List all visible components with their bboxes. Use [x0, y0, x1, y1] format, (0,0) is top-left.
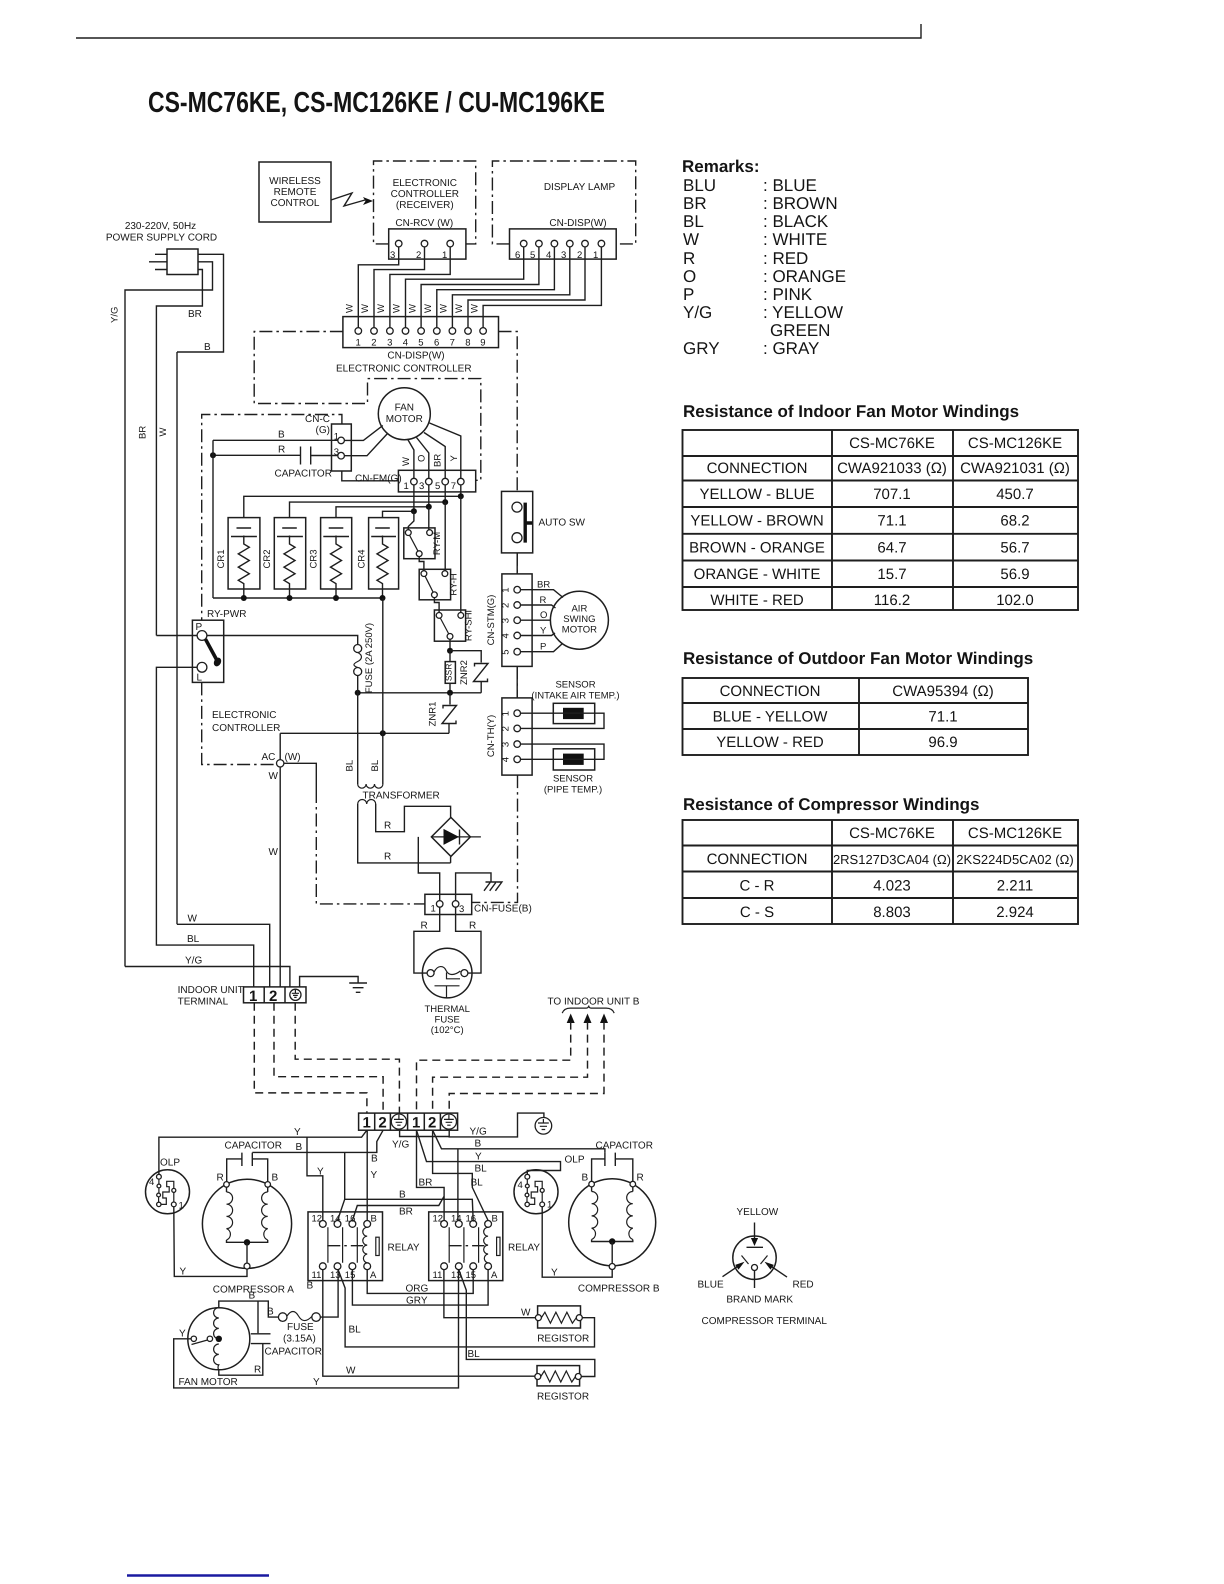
svg-text:: WHITE: : WHITE: [763, 230, 827, 249]
fan motor capacitor: [257, 1301, 259, 1333]
wire Y/G to outdoor earth: [449, 1113, 544, 1137]
wire ORG relay A pinA to relay B pin15: [367, 1270, 473, 1294]
svg-text:Y: Y: [371, 1170, 378, 1181]
svg-text:116.2: 116.2: [874, 592, 910, 609]
connector CN-RCV(W): [389, 229, 466, 259]
svg-text:7: 7: [450, 338, 455, 349]
svg-text:ZNR2: ZNR2: [459, 660, 470, 685]
W labels on 9 wires: [345, 304, 481, 313]
wire terminal ground to chassis earth: [300, 977, 359, 987]
svg-text:Y: Y: [294, 1127, 301, 1138]
svg-text:A: A: [370, 1270, 377, 1281]
connector CN-DISP(W) top: [510, 229, 617, 259]
svg-text:CAPACITOR: CAPACITOR: [265, 1347, 322, 1358]
wire BR from plug: [156, 270, 202, 636]
svg-text:W: W: [392, 304, 403, 313]
svg-text:2KS224D5CA02 (Ω): 2KS224D5CA02 (Ω): [956, 852, 1073, 867]
air swing motor: [550, 591, 608, 649]
wire CN-DISP pin3 to 9pin-7: [452, 247, 569, 328]
svg-text:6: 6: [434, 338, 439, 349]
diode bridge: [431, 817, 470, 856]
wire B from outdoor 2L to compressor A capacitor: [252, 1130, 383, 1152]
svg-text:16: 16: [466, 1214, 477, 1225]
svg-text:L: L: [197, 673, 203, 684]
svg-text:: GRAY: : GRAY: [763, 339, 819, 358]
svg-text:YELLOW: YELLOW: [737, 1207, 779, 1218]
svg-text:YELLOW - BROWN: YELLOW - BROWN: [690, 513, 823, 530]
OLP B: [514, 1170, 558, 1214]
svg-text:R: R: [540, 595, 547, 606]
terminal earth R: [441, 1114, 456, 1129]
wire CN-STM to CN-TH: [516, 666, 518, 698]
svg-text:B: B: [371, 1214, 377, 1225]
svg-text:YELLOW - RED: YELLOW - RED: [716, 734, 824, 751]
svg-text:BL: BL: [344, 760, 355, 772]
svg-text:BLUE: BLUE: [698, 1280, 724, 1291]
svg-text:3: 3: [501, 742, 512, 747]
svg-text:3: 3: [459, 904, 464, 915]
svg-text:71.1: 71.1: [928, 709, 957, 726]
svg-text:12: 12: [312, 1214, 323, 1225]
svg-text:102.0: 102.0: [996, 592, 1034, 609]
svg-text:CR3: CR3: [309, 549, 320, 568]
svg-text:MOTOR: MOTOR: [562, 625, 597, 636]
svg-text:R: R: [254, 1365, 261, 1376]
transformer secondary leads R: [358, 804, 451, 863]
svg-text:56.7: 56.7: [1000, 540, 1029, 557]
wire relay B pin14 feed: [457, 1149, 459, 1221]
svg-text:Y/G: Y/G: [470, 1127, 487, 1138]
svg-text:CS-MC126KE: CS-MC126KE: [968, 435, 1062, 452]
svg-text:2: 2: [501, 603, 512, 608]
bridge bottom lead: [450, 857, 452, 863]
svg-text:Y/G: Y/G: [185, 956, 202, 967]
pin 4 of CN-DISP: [551, 240, 558, 247]
svg-text:B: B: [278, 430, 285, 441]
wire W bus CN-FM pin1 to CR4: [383, 485, 414, 518]
svg-text:P: P: [540, 642, 546, 653]
svg-text:MOTOR: MOTOR: [386, 414, 423, 425]
CN-FUSE pin3 to frame ground 777: [456, 873, 491, 901]
svg-text:O: O: [417, 455, 428, 462]
thermal fuse: [422, 948, 472, 998]
svg-text:TRANSFORMER: TRANSFORMER: [363, 791, 440, 802]
svg-text:OLP: OLP: [160, 1158, 180, 1169]
svg-text:5: 5: [501, 649, 512, 654]
pin 2 of CN-DISP: [582, 240, 589, 247]
svg-text:INDOOR UNIT: INDOOR UNIT: [178, 985, 244, 996]
sensor pipe temp: [553, 749, 594, 770]
svg-text:Y: Y: [449, 455, 460, 462]
wire Y OLP A to compressor A common: [174, 1207, 247, 1277]
svg-text:3: 3: [334, 447, 339, 458]
wireless remote control box: [259, 162, 331, 222]
svg-text:CS-MC76KE, CS-MC126KE / CU-MC1: CS-MC76KE, CS-MC126KE / CU-MC196KE: [148, 87, 605, 119]
wire CN-DISP pin5 to 9pin-5: [421, 247, 539, 328]
svg-text:W: W: [345, 304, 356, 313]
svg-text:11: 11: [312, 1270, 322, 1281]
wire Y fan motor bottom rail to relay B pin13: [174, 1270, 459, 1388]
svg-text:5: 5: [530, 250, 535, 261]
svg-text:CONTROLLER: CONTROLLER: [391, 189, 459, 200]
connector CN-C(G): [332, 424, 352, 471]
svg-text:Y: Y: [317, 1167, 324, 1178]
svg-text:R: R: [217, 1173, 224, 1184]
svg-text:W: W: [360, 304, 371, 313]
wires sensor2 to CN-TH pins 3,4: [521, 744, 605, 759]
bridge DC- to CN-FUSE pin1: [418, 837, 439, 901]
svg-text:BL: BL: [370, 760, 381, 772]
inner boundary to CN-C and AC node: [202, 415, 342, 765]
svg-text:CR2: CR2: [262, 549, 273, 568]
wire CN-DISP pin4 to 9pin-6: [437, 247, 555, 328]
wire Y from outdoor 1R to OLP B: [417, 1130, 561, 1174]
svg-text:2: 2: [371, 338, 376, 349]
CR4: [369, 518, 399, 589]
dashed wire indoor 2 to outdoor 2L: [274, 1003, 383, 1113]
wire O bus CN-FM pin3 to CR3: [336, 485, 429, 518]
svg-text:B: B: [371, 1154, 378, 1165]
svg-text:(G): (G): [316, 425, 330, 436]
connector CN-DISP(W) 9-pin on controller: [343, 317, 499, 348]
svg-text:FUSE (2A 250V): FUSE (2A 250V): [364, 623, 375, 693]
svg-text:W: W: [158, 428, 169, 437]
svg-text:230-220V, 50Hz: 230-220V, 50Hz: [125, 221, 196, 232]
svg-text:BR: BR: [399, 1207, 413, 1218]
svg-text:CONNECTION: CONNECTION: [707, 460, 808, 477]
auto switch connector: [502, 491, 533, 553]
svg-text:1: 1: [501, 587, 512, 592]
wire Y/G to terminal ground: [125, 967, 290, 987]
OLP A: [146, 1170, 190, 1214]
svg-text:707.1: 707.1: [873, 486, 911, 503]
svg-text:DISPLAY LAMP: DISPLAY LAMP: [544, 182, 616, 193]
svg-text:P: P: [683, 285, 694, 304]
svg-text:BL: BL: [187, 934, 200, 945]
wire W relay B pin11 to registor 1: [444, 1270, 536, 1318]
svg-text:CS-MC126KE: CS-MC126KE: [968, 825, 1062, 842]
wire BL relay B pin13 to registor 2: [459, 1270, 595, 1377]
svg-text:BLUE - YELLOW: BLUE - YELLOW: [713, 709, 829, 726]
svg-text:B: B: [296, 1142, 303, 1153]
svg-text:CAPACITOR: CAPACITOR: [275, 469, 332, 480]
svg-text:W: W: [188, 914, 198, 925]
svg-text:BR: BR: [419, 1178, 433, 1189]
yellow lead with arrow: [754, 1223, 756, 1240]
svg-text:W: W: [376, 304, 387, 313]
svg-text:2.924: 2.924: [996, 904, 1034, 921]
transformer: [358, 598, 383, 784]
pin 1 of CN-FM: [411, 478, 418, 485]
svg-text:Resistance of Compressor Windi: Resistance of Compressor Windings: [683, 795, 979, 814]
relay RY-H: [419, 569, 450, 600]
svg-text:SWING: SWING: [563, 614, 595, 625]
wire Y into RY-SH1 right contact: [460, 496, 462, 612]
compressor A: [202, 1179, 291, 1268]
footer blue line: [127, 1574, 269, 1576]
svg-text:CN-RCV (W): CN-RCV (W): [395, 218, 453, 229]
wire RY-SH1 bottom to SSR node: [449, 639, 451, 650]
svg-text:4: 4: [149, 1177, 154, 1188]
svg-text:RY-PWR: RY-PWR: [207, 609, 246, 620]
wire W into RY-M left contact: [408, 511, 414, 529]
svg-text:3: 3: [561, 250, 566, 261]
svg-text:B: B: [267, 1307, 274, 1318]
wire B from plug: [177, 254, 224, 352]
svg-text:R: R: [278, 445, 285, 456]
svg-text:ELECTRONIC: ELECTRONIC: [212, 710, 276, 721]
relay A: [308, 1212, 383, 1281]
svg-text:CS-MC76KE: CS-MC76KE: [849, 825, 935, 842]
wires CN-STM pins to air swing motor: [521, 590, 564, 598]
svg-text:WIRELESS: WIRELESS: [269, 176, 321, 187]
wire relay A pin12 tap to Y rail: [307, 1137, 323, 1220]
svg-text:RY-H: RY-H: [449, 573, 460, 595]
wire CN-C shell to CN-FM shell: [342, 471, 399, 481]
wire CN-C pin3 to fan motor: [344, 434, 387, 456]
svg-text:GRY: GRY: [683, 339, 720, 358]
wire CN-C pin1 to fan motor: [344, 426, 382, 441]
svg-text:W: W: [269, 771, 279, 782]
wire fuse to relay A pin13: [320, 1270, 338, 1318]
svg-text:R: R: [683, 249, 695, 268]
wire B from outdoor 2R to compressor B capacitor: [433, 1130, 605, 1152]
wire CN-RCV pin3 to 9pin-1: [358, 247, 398, 328]
svg-text:(RECEIVER): (RECEIVER): [396, 200, 454, 211]
svg-text:CN-FM(G): CN-FM(G): [355, 474, 402, 485]
svg-text:Y: Y: [540, 626, 547, 637]
capacitor (indoor fan): [301, 447, 311, 465]
svg-text:THERMAL: THERMAL: [424, 1004, 469, 1015]
svg-text:W: W: [401, 457, 412, 466]
svg-text:ELECTRONIC CONTROLLER: ELECTRONIC CONTROLLER: [336, 364, 472, 375]
earth ground symbol: [349, 983, 367, 992]
svg-text:W: W: [407, 304, 418, 313]
svg-text:GRY: GRY: [406, 1296, 428, 1307]
svg-text:B: B: [204, 342, 211, 353]
svg-text:CONTROL: CONTROL: [271, 198, 320, 209]
svg-text:5: 5: [435, 481, 440, 492]
svg-text:CR4: CR4: [357, 549, 368, 568]
wire W fan motor to CN-FM pin1: [408, 439, 414, 478]
svg-text:9: 9: [480, 338, 485, 349]
svg-text:WHITE - RED: WHITE - RED: [710, 592, 803, 609]
common rail left: [212, 440, 214, 598]
rail under SSR: [358, 692, 482, 694]
arrow 2: [584, 1014, 592, 1024]
svg-text:ORANGE - WHITE: ORANGE - WHITE: [694, 566, 821, 583]
pin 1 of CN-RCV: [447, 240, 454, 247]
junction dot on R rail: [210, 452, 216, 458]
svg-text:CR1: CR1: [216, 549, 227, 568]
svg-text:O: O: [683, 267, 696, 286]
svg-text:64.7: 64.7: [877, 540, 906, 557]
svg-text:RELAY: RELAY: [388, 1243, 420, 1254]
wire GRY relay A pin15 to relay B pinA: [352, 1270, 488, 1306]
wire W relay A pin11 to registor 2: [323, 1270, 535, 1377]
svg-text:RELAY: RELAY: [508, 1243, 540, 1254]
svg-text:W: W: [454, 304, 465, 313]
brand mark circle: [752, 1265, 758, 1271]
svg-text:4: 4: [501, 757, 512, 762]
svg-text:4.023: 4.023: [873, 878, 911, 895]
svg-text:W: W: [683, 230, 699, 249]
registor 2: [537, 1366, 580, 1386]
svg-text:B: B: [399, 1190, 406, 1201]
wire CN-RCV pin1 to 9pin-3: [390, 247, 450, 328]
svg-text:1: 1: [431, 904, 436, 915]
svg-text:1: 1: [249, 988, 257, 1005]
svg-text:450.7: 450.7: [996, 486, 1034, 503]
svg-text:Y/G: Y/G: [110, 307, 121, 323]
svg-text:: RED: : RED: [763, 249, 808, 268]
compressor terminal circle: [733, 1236, 776, 1279]
connector CN-TH(Y): [502, 698, 532, 775]
svg-text:BRAND MARK: BRAND MARK: [726, 1295, 793, 1306]
AC (W) node: [279, 733, 281, 760]
indoor unit terminal block: [244, 987, 307, 1003]
svg-text:1: 1: [442, 250, 447, 261]
svg-text:R: R: [469, 921, 476, 932]
svg-text:2: 2: [501, 726, 512, 731]
svg-text:FAN: FAN: [395, 403, 414, 414]
display lamp dashed box: [492, 161, 635, 244]
wire BL from outdoor 2R to relay B coil: [433, 1130, 489, 1220]
connector CN-FM(G): [398, 470, 475, 492]
svg-text:: BLUE: : BLUE: [763, 176, 817, 195]
fuse (3.15A): [278, 1313, 287, 1322]
svg-text:CN-TH(Y): CN-TH(Y): [486, 715, 497, 757]
svg-text:B: B: [307, 1281, 314, 1292]
svg-text:BL: BL: [468, 1349, 481, 1360]
svg-text:BL: BL: [349, 1325, 362, 1336]
svg-text:11: 11: [433, 1270, 443, 1281]
boundary through right connectors: [472, 553, 518, 903]
wire Y bus CN-FM pin7 to CR1: [244, 485, 461, 518]
svg-text:CONTROLLER: CONTROLLER: [212, 723, 280, 734]
wire auto sw to CN-STM: [516, 553, 518, 574]
arrow 1: [567, 1014, 575, 1024]
svg-text:CAPACITOR: CAPACITOR: [225, 1141, 282, 1152]
svg-text:FUSE: FUSE: [287, 1322, 314, 1333]
svg-text:W: W: [521, 1308, 531, 1319]
compressor B: [569, 1179, 656, 1266]
brand mark lead: [754, 1271, 756, 1289]
svg-text:2RS127D3CA04 (Ω): 2RS127D3CA04 (Ω): [833, 852, 951, 867]
outdoor fan motor: [188, 1308, 250, 1370]
svg-text:BR: BR: [683, 194, 707, 213]
svg-text:2: 2: [577, 250, 582, 261]
electronic controller boundary (right): [499, 332, 518, 492]
wire RY-H to RY-SH1: [434, 598, 439, 613]
svg-text:BL: BL: [475, 1164, 488, 1175]
svg-text:3: 3: [387, 338, 392, 349]
fan motor: [378, 388, 430, 440]
svg-text:8.803: 8.803: [873, 904, 911, 921]
svg-text:BR: BR: [433, 454, 444, 467]
svg-text:2: 2: [269, 988, 277, 1005]
wires sensor1 to CN-TH pins 1,2: [521, 713, 605, 728]
svg-text:CN-C: CN-C: [305, 414, 330, 425]
svg-text:CWA921033 (Ω): CWA921033 (Ω): [837, 460, 947, 477]
svg-text:REMOTE: REMOTE: [274, 187, 317, 198]
svg-text:B: B: [249, 1291, 256, 1302]
wire BL relay A pin13 to registor 1: [338, 1270, 594, 1347]
wire CN-DISP pin2 to 9pin-8: [468, 247, 585, 328]
svg-text:POWER SUPPLY CORD: POWER SUPPLY CORD: [106, 233, 217, 244]
svg-text:ELECTRONIC: ELECTRONIC: [393, 178, 457, 189]
electronic controller (receiver) dashed box: [374, 161, 476, 244]
wire bridging earth cells: [400, 1130, 450, 1136]
svg-text:15: 15: [345, 1270, 356, 1281]
fuse (2A 250V): [207, 636, 358, 645]
pin 2 of CN-RCV: [421, 240, 428, 247]
ground 777: [484, 882, 502, 891]
svg-text:CN-DISP(W): CN-DISP(W): [387, 351, 444, 362]
svg-text:1: 1: [501, 711, 512, 716]
outdoor terminal block: [359, 1113, 458, 1130]
svg-text:8: 8: [465, 338, 470, 349]
svg-text:R: R: [637, 1173, 644, 1184]
svg-text:56.9: 56.9: [1000, 566, 1029, 583]
svg-text:96.9: 96.9: [928, 734, 957, 751]
svg-text:YELLOW - BLUE: YELLOW - BLUE: [699, 486, 814, 503]
wire Y from outdoor 1L to relay A coil: [366, 1130, 368, 1220]
svg-text:Resistance of Outdoor Fan Moto: Resistance of Outdoor Fan Motor Windings: [683, 649, 1033, 668]
svg-text:CS-MC76KE: CS-MC76KE: [849, 435, 935, 452]
svg-text:FUSE: FUSE: [435, 1015, 460, 1026]
svg-text:14: 14: [451, 1214, 462, 1225]
svg-text:1: 1: [356, 338, 361, 349]
dashed wire indoor 1 to outdoor 1L: [254, 1003, 367, 1113]
svg-text:TO INDOOR UNIT B: TO INDOOR UNIT B: [548, 997, 640, 1008]
svg-text:SENSOR: SENSOR: [555, 680, 595, 691]
common bottom rail: [213, 589, 383, 598]
svg-text:68.2: 68.2: [1000, 513, 1029, 530]
svg-text:AUTO SW: AUTO SW: [539, 518, 586, 529]
svg-text:Resistance of Indoor Fan Motor: Resistance of Indoor Fan Motor Windings: [683, 402, 1019, 421]
svg-text:REGISTOR: REGISTOR: [537, 1392, 589, 1403]
pin 3 of CN-RCV: [395, 240, 402, 247]
svg-text:71.1: 71.1: [877, 513, 906, 530]
svg-text:2: 2: [378, 1114, 386, 1131]
svg-text:R: R: [421, 921, 428, 932]
wire BR to P contact: [156, 635, 197, 637]
SSR: [445, 662, 455, 684]
wire R with capacitor to CN-C pin3: [213, 454, 300, 456]
svg-text:B: B: [492, 1214, 498, 1225]
varistor ZNR2: [450, 651, 481, 663]
svg-text:15: 15: [466, 1270, 477, 1281]
svg-text:4: 4: [501, 633, 512, 638]
arrow 3: [600, 1014, 608, 1024]
svg-text:: PINK: : PINK: [763, 285, 813, 304]
svg-text:1: 1: [593, 250, 598, 261]
svg-text:RY-SHI: RY-SHI: [464, 610, 475, 641]
svg-text:BR: BR: [138, 426, 149, 439]
svg-text:R: R: [384, 821, 391, 832]
RY-PWR contact arm: [206, 639, 217, 659]
CR1: [228, 518, 260, 589]
svg-text:Y: Y: [180, 1267, 187, 1278]
svg-text:BLU: BLU: [683, 176, 716, 195]
svg-text:W: W: [346, 1366, 356, 1377]
svg-text:AIR: AIR: [571, 604, 587, 615]
svg-text:CN-STM(G): CN-STM(G): [486, 595, 497, 646]
wire B/W down left: [176, 352, 178, 924]
blue lead arrow: [723, 1266, 740, 1277]
relay B coil: [484, 1227, 488, 1263]
